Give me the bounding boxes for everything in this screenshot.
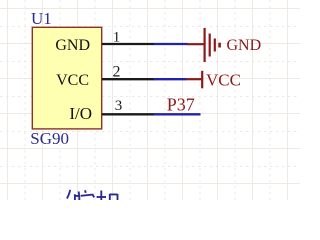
svg-text:U1: U1: [31, 9, 52, 28]
svg-text:GND: GND: [227, 37, 262, 54]
svg-text:I/O: I/O: [69, 104, 92, 123]
svg-text:VCC: VCC: [206, 71, 241, 90]
svg-text:VCC: VCC: [56, 72, 89, 89]
svg-text:GND: GND: [55, 37, 90, 54]
svg-text:SG90: SG90: [30, 129, 69, 148]
svg-text:3: 3: [115, 98, 123, 114]
svg-text:P37: P37: [167, 95, 195, 115]
svg-text:2: 2: [113, 64, 121, 81]
svg-text:1: 1: [113, 29, 121, 45]
